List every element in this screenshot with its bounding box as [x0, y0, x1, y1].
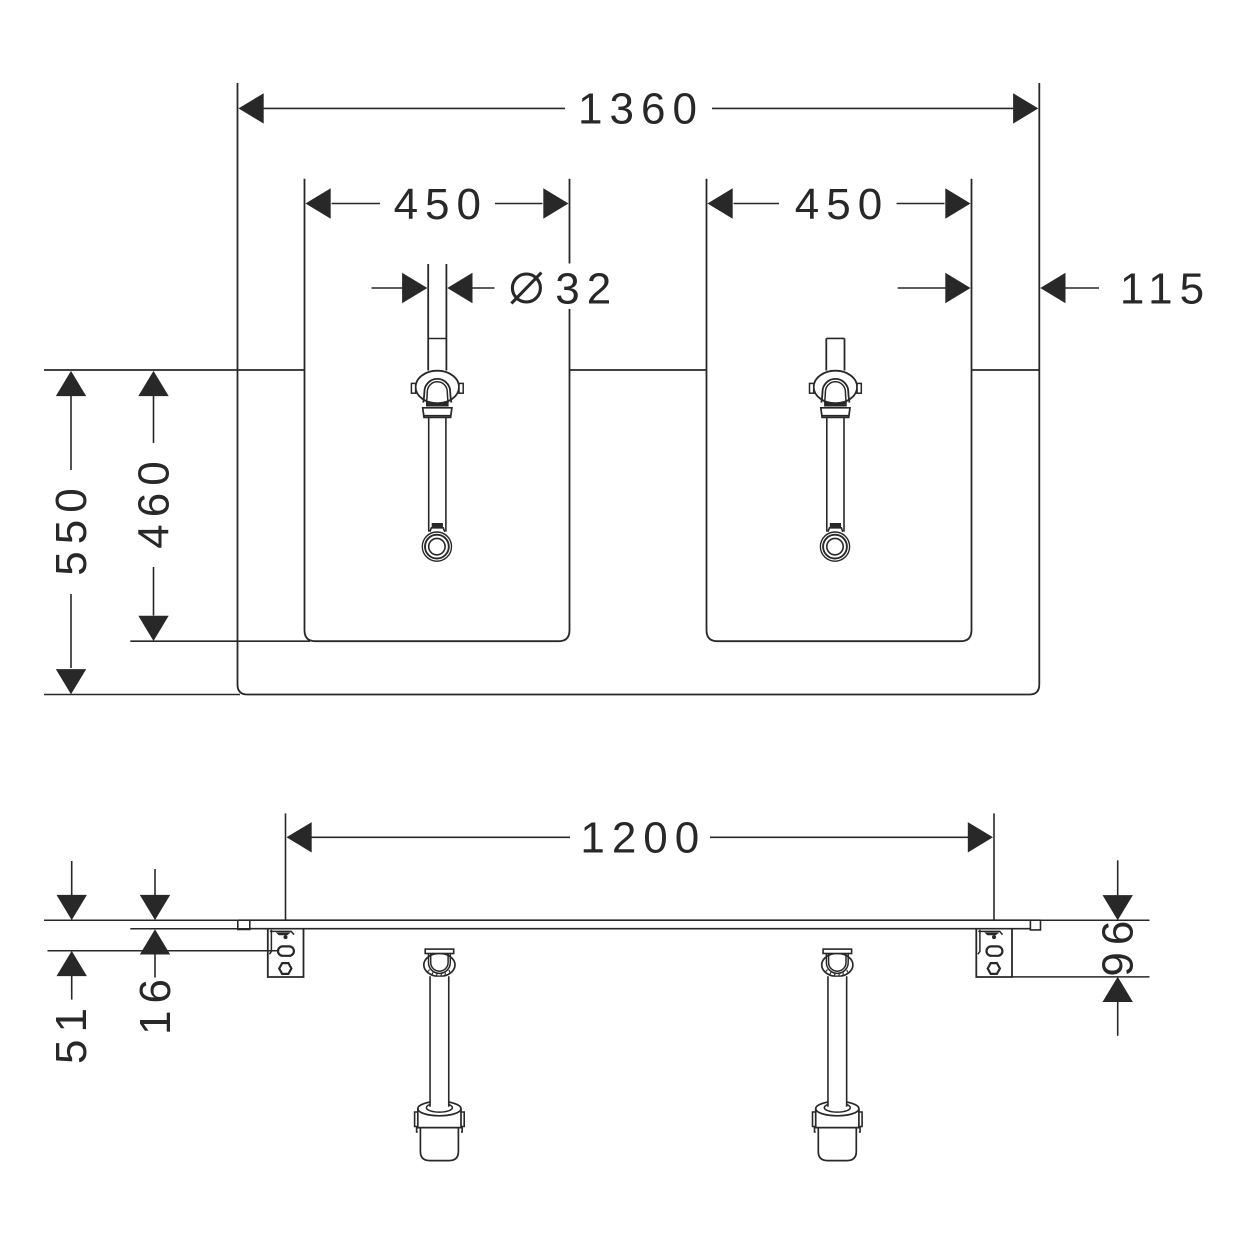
- right drain overflow horseshoe outer: [821, 379, 849, 403]
- left trap cup rim outer: [418, 1101, 461, 1115]
- dimension 450 left line: [332, 203, 381, 205]
- left wall bracket hex hole: [279, 963, 291, 974]
- left drain outlet inner circle: [429, 538, 445, 554]
- dimension 1200 left arrow: [287, 822, 312, 852]
- right trap cup rim inner: [824, 1103, 850, 1112]
- dimension 51 upper tail: [71, 861, 73, 896]
- left wall bracket slot hole: [278, 946, 294, 955]
- left trap cup rim inner: [426, 1103, 452, 1112]
- svg-text:51: 51: [47, 1001, 96, 1064]
- svg-text:1200: 1200: [580, 814, 706, 863]
- dimension 16 bottom arrow: [140, 929, 170, 954]
- dimension 1360 left arrow: [239, 93, 264, 123]
- left trap pipe: [430, 977, 449, 1106]
- svg-text:32: 32: [555, 265, 618, 314]
- left wall bracket body: [268, 929, 304, 977]
- dimension 550 bottom arrow: [56, 669, 86, 694]
- right bowl cutout with 450 extension lines: [707, 179, 972, 642]
- dimension 96 lower tail: [1117, 1002, 1119, 1036]
- dimension 1200 right arrow: [968, 822, 993, 852]
- dimension 550 line: [70, 396, 72, 470]
- left wall bracket shadow wedge: [276, 932, 291, 935]
- svg-text:460: 460: [130, 454, 179, 548]
- dimension D32 left tail: [372, 287, 403, 289]
- svg-text:16: 16: [131, 972, 180, 1035]
- dimension 115 tail: [1065, 287, 1099, 289]
- right trap cup body: [818, 1128, 856, 1161]
- dimension 1360 line: [264, 107, 566, 109]
- dimension 51 top arrow: [57, 895, 87, 920]
- svg-text:115: 115: [1120, 265, 1211, 314]
- right drain tailpipe cap: [826, 337, 844, 339]
- left drain seal ring (black band): [426, 402, 449, 406]
- right bowl edge pointer tail: [898, 287, 947, 289]
- left wall bracket bent flange: [269, 930, 271, 954]
- dimension D32 diameter symbol: [512, 274, 540, 302]
- right drain body right tab: [857, 383, 861, 393]
- left trap left bayonet tab: [415, 1112, 418, 1132]
- dimension 1200 right extension line: [993, 813, 995, 919]
- washbasin top edge middle segment: [570, 369, 707, 371]
- dimension D32 left arrow: [402, 273, 427, 303]
- right wall bracket bent flange: [978, 930, 980, 954]
- washbasin outer outline (top view): [238, 83, 1040, 695]
- right drain outlet middle circle: [823, 535, 847, 559]
- left drain body left tab: [411, 383, 415, 393]
- svg-text:96: 96: [1094, 914, 1143, 977]
- right wall bracket shadow wedge: [984, 932, 999, 935]
- dimension 96 bottom arrow: [1103, 977, 1133, 1002]
- bowl bottom reference line for 460: [130, 640, 310, 642]
- right trap inlet nut thread hatching: [826, 970, 848, 977]
- left drain overflow horseshoe inner: [427, 382, 449, 403]
- left drain lower pipe: [428, 417, 430, 531]
- dimension 16 upper tail: [154, 869, 156, 896]
- left trap inlet nut thread hatching: [428, 970, 450, 977]
- washbasin top edge left segment + 550/460 top reference line: [44, 369, 305, 371]
- reference line screw slot axis (51): [48, 950, 279, 952]
- left bowl cutout with 450 extension lines: [305, 179, 570, 642]
- right trap cup rim outer: [816, 1101, 859, 1115]
- left trap inlet ring outer: [424, 953, 455, 976]
- left drain waste body: [416, 371, 459, 404]
- basin plate left end lip: [238, 920, 250, 929]
- reference line top of plate (51/16/96) left: [44, 919, 238, 921]
- right wall bracket slot hole: [987, 946, 1003, 955]
- dimension 51 lower tail: [71, 976, 73, 1000]
- svg-text:450: 450: [394, 180, 488, 229]
- reference line bottom of plate (16): [130, 928, 250, 930]
- right trap right bayonet tab: [859, 1112, 862, 1132]
- right drain seal ring (black band): [824, 402, 847, 406]
- right wall bracket rivet dot: [992, 935, 996, 939]
- left drain collar flange: [423, 408, 452, 418]
- right drain outlet outer circle: [820, 532, 849, 561]
- dimension 96 top arrow: [1103, 895, 1133, 920]
- left trap right bayonet tab: [461, 1112, 464, 1132]
- left drain outlet outer circle: [422, 532, 451, 561]
- left drain tailpipe joint: [428, 338, 446, 340]
- right drain outlet clip: [830, 523, 841, 528]
- svg-text:1360: 1360: [578, 85, 704, 134]
- left trap cup nut: [418, 1109, 461, 1128]
- dimension 51 bottom arrow: [57, 951, 87, 976]
- dimension 550 top arrow: [56, 371, 86, 396]
- dimension 460 top arrow: [138, 371, 168, 396]
- dimension 450 right arrow right: [945, 188, 970, 218]
- left trap cup body: [420, 1128, 458, 1161]
- right trap top washer: [823, 949, 852, 953]
- reference line bottom of bracket (96): [1012, 976, 1150, 978]
- right wall bracket body: [976, 929, 1012, 977]
- right wall bracket hex hole: [988, 963, 1000, 974]
- basin plate right end lip: [1030, 920, 1040, 930]
- right drain lower pipe: [826, 417, 828, 531]
- left drain outlet clip: [432, 523, 443, 528]
- right drain body left tab: [810, 383, 814, 393]
- right drain tailpipe (D32): [825, 338, 827, 370]
- right trap inlet nut U-channel: [826, 954, 848, 974]
- left wall bracket rivet dot: [284, 935, 288, 939]
- right drain outlet inner circle: [827, 538, 843, 554]
- dimension 450 left arrow: [306, 188, 331, 218]
- left drain outlet middle circle: [425, 535, 449, 559]
- right drain waste body: [814, 371, 857, 404]
- right drain overflow horseshoe inner: [825, 382, 847, 403]
- right trap left bayonet tab: [813, 1112, 816, 1132]
- left drain overflow horseshoe outer: [423, 379, 451, 403]
- outer bottom reference line for 550: [44, 694, 240, 696]
- dimension 115 arrow: [1040, 273, 1065, 303]
- left trap top washer: [425, 949, 454, 953]
- basin plate (side view) top edge: [238, 919, 1041, 921]
- svg-text:550: 550: [47, 481, 96, 575]
- dimension 450 right line: [734, 203, 780, 205]
- right drain collar flange: [821, 408, 850, 418]
- right trap pipe: [828, 977, 847, 1106]
- dimension 450 right arrow left: [708, 188, 733, 218]
- dimension 460 bottom arrow: [138, 616, 168, 641]
- dimension 450 right arrow: [543, 188, 568, 218]
- left drain tailpipe (D32): [427, 264, 429, 371]
- dimension 1200 line: [312, 836, 571, 838]
- left drain body right tab: [459, 383, 463, 393]
- reference line top of plate (96) right: [1041, 919, 1150, 921]
- right trap inlet ring outer: [822, 953, 853, 976]
- basin plate bottom edge: [250, 928, 1031, 930]
- dimension 96 upper tail: [1117, 860, 1119, 896]
- svg-text:450: 450: [795, 180, 889, 229]
- right trap cup nut: [816, 1109, 859, 1128]
- dimension 460 line: [153, 396, 155, 443]
- left trap inlet nut U-channel: [429, 954, 451, 974]
- dimension 1360 right arrow: [1013, 93, 1038, 123]
- washbasin top edge right segment: [972, 369, 1040, 371]
- right bowl edge pointer arrow: [945, 273, 970, 303]
- dimension D32 right tail: [472, 287, 494, 289]
- dimension D32 right arrow: [447, 273, 472, 303]
- dimension 16 lower tail: [154, 954, 156, 977]
- dimension 1200 left extension line: [285, 813, 287, 919]
- dimension 16 top arrow: [140, 895, 170, 920]
